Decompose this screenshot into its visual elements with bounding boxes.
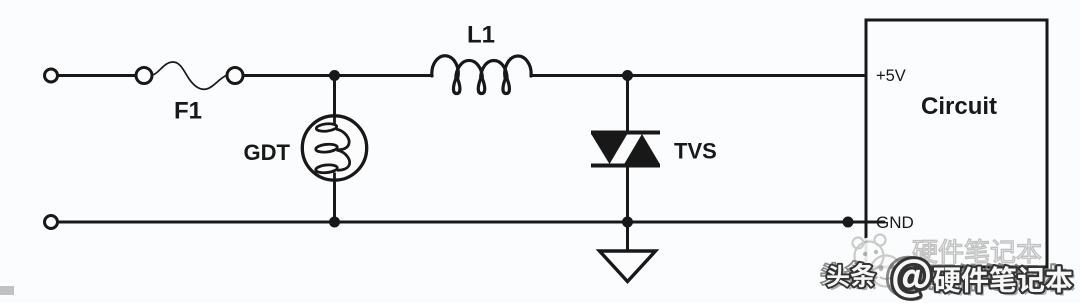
wire fuse to L1 segment — [244, 74, 433, 77]
watermark dark text outline — [827, 265, 849, 287]
GDT tube body — [302, 116, 366, 180]
fuse F1 left terminal — [136, 68, 152, 84]
TVS diode top bar — [591, 131, 660, 135]
wire TVS top lead — [626, 76, 629, 133]
inductor L1 — [432, 56, 531, 94]
junction node GND at box — [843, 217, 854, 228]
wire TVS bottom lead — [626, 166, 629, 251]
wire GND stub inside box — [866, 221, 884, 224]
svg-text:Circuit: Circuit — [921, 93, 997, 120]
watermark dark text ghost — [821, 263, 843, 285]
wire GDT bottom lead — [333, 181, 336, 223]
GDT internal coil — [315, 116, 349, 181]
terminal input top — [45, 69, 58, 82]
svg-text:F1: F1 — [174, 98, 202, 125]
watermark dark text shadow — [830, 262, 1075, 301]
TVS diode right triangle — [625, 134, 660, 164]
junction node TVS bottom — [622, 217, 633, 228]
svg-text:+5V: +5V — [876, 67, 906, 85]
svg-text:GND: GND — [876, 213, 914, 232]
fuse F1 wire element — [153, 62, 227, 89]
junction node GDT top — [329, 70, 340, 81]
corner smudge — [0, 286, 14, 295]
watermark dark text fill — [827, 265, 849, 287]
wire GDT top lead — [333, 76, 336, 116]
junction node TVS top — [622, 70, 633, 81]
fuse F1 right terminal — [227, 68, 243, 84]
TVS diode left triangle — [592, 135, 628, 165]
svg-text:GDT: GDT — [244, 140, 291, 165]
wire bottom rail — [58, 221, 867, 224]
junction node GDT bottom — [329, 217, 340, 228]
circuit block — [866, 20, 1047, 267]
wire top rail left segment — [58, 74, 136, 77]
ground symbol — [600, 251, 656, 282]
watermark panda logo — [846, 235, 902, 296]
TVS diode bottom bar — [591, 164, 660, 168]
watermark light text — [913, 240, 937, 263]
terminal input bottom — [45, 216, 58, 229]
svg-text:TVS: TVS — [674, 139, 717, 164]
svg-text:L1: L1 — [467, 22, 495, 49]
wire L1 to circuit box — [531, 74, 866, 77]
